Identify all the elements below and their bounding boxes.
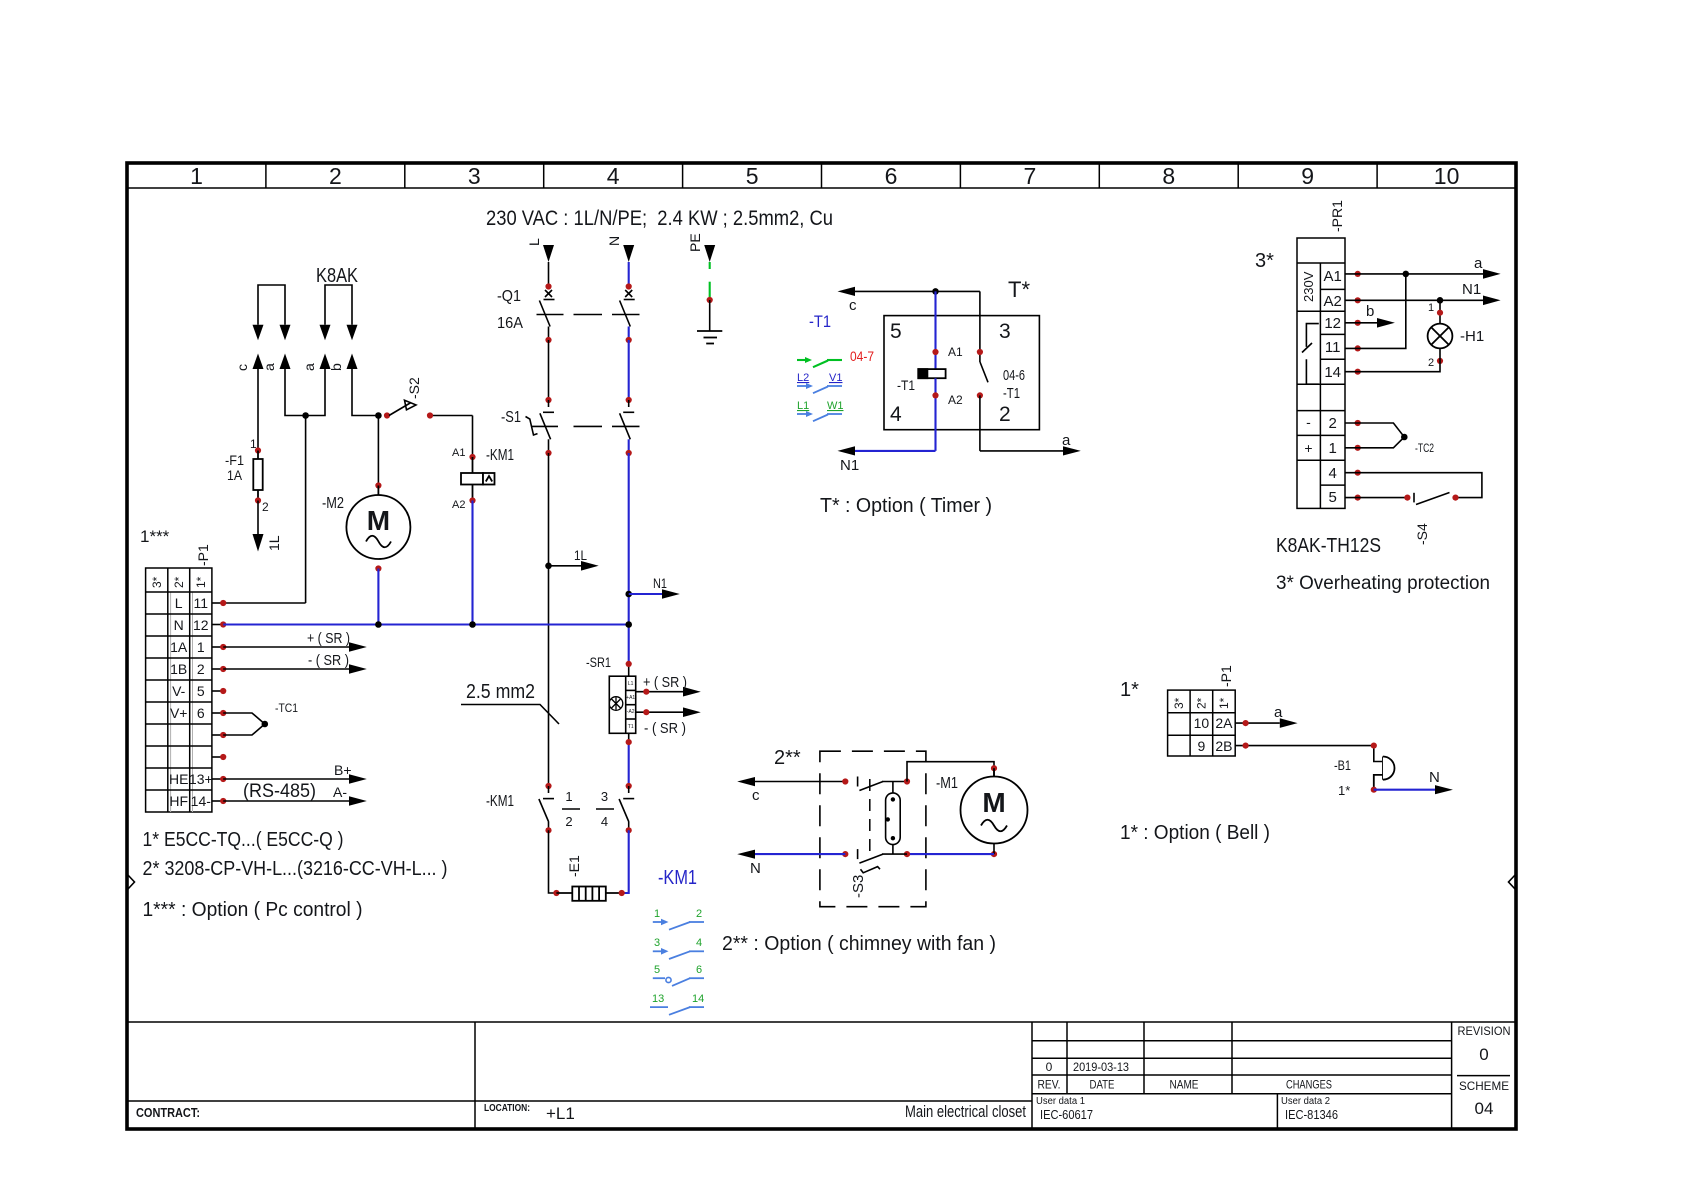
svg-text:2: 2 (1428, 357, 1434, 369)
title block texts (136, 1024, 1511, 1123)
timer box pin numbers (890, 320, 1011, 426)
svg-text:1B: 1B (170, 661, 187, 677)
svg-text:6: 6 (696, 964, 702, 976)
P1 header labels (150, 576, 208, 588)
fuse F1 labels (225, 437, 269, 514)
notes under P1 (143, 829, 448, 921)
svg-text:-SR1: -SR1 (586, 654, 611, 670)
switch S3 pole bottom (858, 849, 907, 873)
wire a pair join (223, 369, 325, 603)
svg-text:A1: A1 (948, 345, 963, 359)
wire to M1 top (907, 762, 994, 782)
svg-text:User data 2: User data 2 (1281, 1096, 1330, 1107)
svg-text:2: 2 (1329, 415, 1337, 432)
wire coil down (934, 378, 936, 451)
wire Q1L to S1L (548, 340, 550, 400)
svg-text:K8AK: K8AK (316, 265, 359, 287)
wire b to M2 (377, 416, 379, 486)
svg-text:-Q1: -Q1 (497, 288, 521, 305)
svg-text:A2: A2 (452, 499, 465, 511)
svg-text:A-: A- (333, 784, 347, 800)
svg-text:T1: T1 (628, 724, 634, 730)
svg-text:-T1: -T1 (1003, 385, 1020, 402)
svg-text:- ( SR ): - ( SR ) (644, 720, 686, 737)
svg-text:HE: HE (169, 771, 188, 787)
wire c arrow left (737, 777, 845, 804)
svg-text:a: a (1274, 704, 1283, 721)
svg-text:4: 4 (890, 403, 902, 426)
svg-text:b: b (328, 363, 344, 371)
wire N arrow bell (1374, 769, 1453, 794)
node S2 junction b (375, 412, 382, 419)
contact KM1 pole 1-2 (539, 786, 554, 830)
wire pole1 to E1 (549, 830, 557, 893)
wire A- arrow (223, 784, 367, 806)
wire B+ arrow (223, 762, 367, 784)
svg-text:-S2: -S2 (406, 377, 422, 399)
svg-text:3: 3 (601, 789, 608, 804)
svg-text:12: 12 (193, 617, 209, 633)
node Q1 L top (545, 283, 551, 289)
svg-text:1: 1 (1329, 440, 1337, 457)
svg-text:12: 12 (1324, 315, 1341, 332)
switch S3 pole top (858, 777, 907, 791)
svg-text:2*: 2* (172, 576, 186, 588)
discharge lamp (886, 782, 901, 855)
PR1 internal changeover contact (1302, 324, 1319, 385)
svg-text:14: 14 (1324, 364, 1341, 381)
svg-text:A1: A1 (452, 447, 465, 459)
svg-text:N: N (606, 236, 622, 246)
svg-text:A2: A2 (948, 393, 963, 407)
wire c arrow timer (838, 287, 980, 314)
svg-text:-A2: -A2 (627, 709, 635, 715)
svg-text:13: 13 (652, 993, 664, 1005)
timer T* box (884, 316, 1039, 430)
svg-text:1: 1 (190, 163, 203, 189)
svg-text:L1: L1 (797, 400, 809, 412)
node SR1 bottom (626, 739, 632, 745)
node bell top (1371, 743, 1377, 749)
svg-text:1: 1 (197, 639, 205, 655)
node S2 right (427, 412, 433, 418)
fuse F1 (253, 451, 262, 501)
svg-text:-S4: -S4 (1414, 523, 1430, 545)
column numbers 1-10 (190, 163, 1459, 189)
svg-text:-TC1: -TC1 (275, 701, 298, 715)
svg-text:IEC-81346: IEC-81346 (1285, 1107, 1338, 1122)
SR1 +A1 output arrow (636, 674, 701, 697)
svg-text:7: 7 (1024, 163, 1037, 189)
svg-text:c: c (234, 364, 250, 371)
svg-text:-PR1: -PR1 (1329, 200, 1345, 232)
svg-text:1*: 1* (1120, 679, 1139, 701)
svg-text:4: 4 (601, 814, 608, 829)
wire M1 bottom blue (993, 844, 995, 855)
svg-text:-F1: -F1 (225, 452, 244, 468)
node F1 pin2 (255, 497, 261, 503)
svg-text:2**: 2** (774, 747, 801, 769)
breaker Q1 pole N (620, 290, 635, 327)
KM1 aux contact 5-6 (653, 964, 704, 986)
T1 aux contact L2-V1 (797, 372, 842, 393)
bell B1 (1374, 757, 1395, 790)
svg-text:LOCATION:: LOCATION: (484, 1103, 530, 1114)
wire L from S1 down (548, 453, 550, 786)
thermocouple TC2 (1345, 423, 1404, 448)
S3 mechanical link (869, 779, 871, 852)
svg-text:04-7: 04-7 (850, 348, 874, 364)
node Q1 N top (626, 283, 632, 289)
svg-text:B+: B+ (334, 762, 352, 778)
KM1 contact terminal labels 1 2 3 4 (565, 789, 608, 829)
svg-text:14-: 14- (191, 793, 212, 809)
svg-text:-M1: -M1 (936, 775, 958, 792)
svg-text:(RS-485): (RS-485) (243, 781, 316, 802)
svg-text:-KM1: -KM1 (486, 447, 514, 464)
svg-text:1L: 1L (266, 535, 282, 551)
svg-text:-P1: -P1 (1218, 665, 1234, 687)
svg-text:3*: 3* (1172, 697, 1186, 709)
contact T1 blade (980, 362, 988, 382)
svg-text:PE: PE (687, 233, 703, 252)
svg-text:V1: V1 (829, 372, 842, 384)
svg-text:4: 4 (696, 937, 702, 949)
wire 2B to bell (1235, 746, 1383, 762)
S1 mechanical link dashes (574, 425, 640, 427)
chimney option dashed box (820, 751, 926, 907)
node KM1 pole1 bottom (545, 827, 551, 833)
node Q1 L bottom (545, 337, 551, 343)
svg-text:+ ( SR ): + ( SR ) (643, 674, 687, 691)
frame centerline markers (127, 874, 1516, 890)
wire 11 to A1 branch (1345, 274, 1406, 349)
wire lamp to 14 (1345, 348, 1440, 371)
svg-text:-S1: -S1 (501, 409, 521, 426)
node bell bottom (1371, 787, 1377, 793)
svg-text:230V: 230V (1301, 271, 1316, 302)
svg-text:1*: 1* (194, 576, 208, 588)
svg-text:a: a (261, 363, 277, 371)
node KM1 pole2 bottom (626, 827, 632, 833)
contact reference 04-6 (1003, 367, 1025, 402)
svg-text:+ ( SR ): + ( SR ) (307, 630, 350, 647)
svg-text:1* E5CC-TQ...( E5CC-Q ): 1* E5CC-TQ...( E5CC-Q ) (143, 829, 344, 851)
svg-text:W1: W1 (827, 400, 844, 412)
node M2 bottom (375, 565, 381, 571)
node H1 pin2 (1437, 358, 1443, 364)
svg-text:1*** : Option ( Pc control ): 1*** : Option ( Pc control ) (143, 899, 363, 921)
wire c down to F1 (257, 369, 259, 451)
node N bus KM1 (469, 621, 476, 628)
node F1 pin1 (255, 447, 261, 453)
contactor coil KM1 (461, 457, 495, 501)
svg-text:CHANGES: CHANGES (1286, 1078, 1332, 1092)
coil T1 (918, 369, 945, 378)
svg-text:10: 10 (1194, 715, 1210, 731)
svg-text:Main electrical closet: Main electrical closet (905, 1102, 1026, 1121)
K8AK connector bracket 1 (258, 285, 285, 325)
svg-text:V-: V- (172, 683, 186, 699)
svg-text:3: 3 (999, 320, 1011, 343)
KM1 aux contact 3-4 (653, 937, 704, 959)
wire PE to ground (709, 300, 711, 331)
svg-text:2019-03-13: 2019-03-13 (1073, 1060, 1129, 1074)
svg-text:L2: L2 (797, 372, 809, 384)
motor M1 (961, 768, 1028, 843)
svg-text:N1: N1 (653, 575, 667, 591)
wire 4 to S4 (1345, 473, 1482, 498)
svg-text:10: 10 (1434, 163, 1460, 189)
svg-text:230 VAC : 1L/N/PE; 2.4 KW ; 2: 230 VAC : 1L/N/PE; 2.4 KW ; 2.5mm2, Cu (486, 207, 833, 230)
wire b arrow (1345, 303, 1395, 328)
svg-text:2: 2 (329, 163, 342, 189)
svg-text:N: N (174, 617, 184, 633)
node T1 A2 (932, 392, 938, 398)
svg-text:M: M (367, 505, 390, 536)
node N1 branch (625, 591, 632, 598)
wire 1L off-page arrow down (253, 501, 283, 552)
wire N bus horizontal (223, 623, 629, 625)
node TC2 (1401, 434, 1408, 441)
svg-text:-T1: -T1 (809, 312, 831, 331)
P1 pin nodes (220, 600, 226, 804)
wire b down (352, 369, 378, 416)
svg-text:9: 9 (1301, 163, 1314, 189)
border frame (127, 163, 1516, 1129)
svg-text:b: b (1366, 303, 1374, 320)
node N bus M2 (375, 621, 382, 628)
wire N1 arrow (629, 575, 680, 599)
node A1 branch (1403, 271, 1410, 278)
svg-text:1L: 1L (574, 547, 587, 563)
supply arrow L (526, 238, 554, 287)
svg-text:-KM1: -KM1 (486, 793, 514, 810)
svg-text:-S3: -S3 (850, 875, 867, 898)
node SR1 -A2 (643, 709, 649, 715)
thermocouple TC1 (223, 713, 265, 735)
svg-text:User data 1: User data 1 (1036, 1096, 1085, 1107)
node S3 top left (842, 778, 848, 784)
ground (697, 331, 722, 344)
svg-text:2B: 2B (1215, 738, 1232, 754)
terminal block P1 bell (1168, 690, 1236, 756)
wire into coil (934, 291, 936, 369)
svg-text:1: 1 (565, 789, 572, 804)
K8AK connector bracket 2 (325, 285, 352, 325)
contact KM1 pole 3-4 (619, 786, 634, 830)
svg-text:- ( SR ): - ( SR ) (308, 652, 349, 669)
svg-text:T*: T* (1008, 277, 1030, 302)
lamp H1 (1428, 324, 1453, 349)
node E1 right (619, 890, 625, 896)
svg-text:5: 5 (890, 320, 902, 343)
svg-text:2: 2 (999, 403, 1011, 426)
svg-text:11: 11 (1325, 339, 1341, 356)
svg-text:5: 5 (746, 163, 759, 189)
svg-text:11: 11 (194, 595, 209, 611)
svg-text:A2: A2 (1324, 293, 1342, 310)
wire KM1 A2 to N bus (471, 501, 473, 625)
svg-text:-TC2: -TC2 (1415, 441, 1434, 455)
svg-text:-KM1: -KM1 (658, 867, 697, 889)
node KM1 A2 (469, 497, 475, 503)
switch S1 pole N (620, 400, 635, 439)
breaker Q1 label (497, 288, 523, 332)
wire A2 to N1 arrow (1345, 281, 1501, 305)
timer contact wire down (979, 291, 981, 362)
svg-text:-: - (1306, 414, 1311, 430)
svg-text:0: 0 (1479, 1045, 1488, 1064)
node SR1 +A1 (643, 689, 649, 695)
svg-text:+: + (1304, 440, 1312, 456)
svg-text:5: 5 (197, 683, 205, 699)
node M1 bottom (991, 851, 997, 857)
node 1L branch (545, 563, 552, 570)
svg-text:1A: 1A (170, 639, 188, 655)
svg-text:T* : Option ( Timer ): T* : Option ( Timer ) (820, 495, 992, 517)
svg-text:1: 1 (654, 908, 660, 920)
protection relay PR1 terminal table (1297, 238, 1345, 508)
svg-text:2: 2 (565, 814, 572, 829)
switch S2 (389, 400, 473, 457)
wire a arrow timer (980, 395, 1081, 455)
svg-text:4: 4 (1329, 465, 1337, 482)
wire M2 to N bus (377, 569, 379, 625)
svg-text:2** : Option ( chimney with fa: 2** : Option ( chimney with fan ) (722, 933, 996, 955)
node KM1 A1 (469, 454, 475, 460)
wire A1 to a arrow (1345, 255, 1501, 279)
P1 pin stubs (212, 603, 223, 801)
title block (127, 1022, 1516, 1129)
node S4 right (1452, 495, 1458, 501)
wire A2 branch to lamp (1439, 300, 1441, 323)
svg-text:c: c (849, 297, 857, 314)
svg-text:2: 2 (197, 661, 205, 677)
wire N from S1 down (628, 453, 630, 664)
SR1 pin labels (626, 681, 635, 730)
node S1 L top (545, 397, 551, 403)
svg-text:N1: N1 (840, 457, 859, 474)
svg-text:2: 2 (696, 908, 702, 920)
svg-text:1A: 1A (227, 467, 243, 483)
svg-text:REVISION: REVISION (1458, 1024, 1511, 1038)
node M2 top (375, 482, 381, 488)
node a join (302, 412, 309, 419)
node Q1 N bottom (626, 337, 632, 343)
svg-text:3* Overheating protection: 3* Overheating protection (1276, 573, 1490, 594)
node E1 left (553, 890, 559, 896)
wire labels c a a b (234, 363, 344, 371)
switch S4 (1345, 493, 1450, 505)
node 2B (1243, 743, 1249, 749)
svg-text:IEC-60617: IEC-60617 (1040, 1107, 1093, 1122)
solid state relay SR1 (609, 676, 636, 733)
node A2 branch (1437, 297, 1444, 304)
KM1 aux contact 13-14 (650, 993, 704, 1015)
T1 aux contact green (797, 357, 842, 367)
svg-text:04-6: 04-6 (1003, 367, 1025, 384)
node SR1 top (626, 661, 632, 667)
node TC1 (262, 721, 269, 728)
svg-text:1*: 1* (1338, 783, 1350, 798)
svg-text:M: M (982, 787, 1005, 818)
supply arrow N (606, 236, 634, 287)
svg-text:0: 0 (1046, 1060, 1053, 1074)
node H1 pin1 (1437, 310, 1443, 316)
node KM1 pole1 top (545, 783, 551, 789)
P1 bell cell labels (1194, 715, 1234, 754)
svg-text:9: 9 (1198, 738, 1206, 754)
2.5 mm2 note (461, 681, 559, 724)
wire 2A to a arrow (1235, 704, 1297, 728)
svg-text:V+: V+ (170, 705, 188, 721)
svg-text:c: c (752, 787, 760, 804)
svg-text:2* 3208-CP-VH-L...(3216-CC-VH-: 2* 3208-CP-VH-L...(3216-CC-VH-L... ) (143, 858, 448, 880)
node N bus SR1 (625, 621, 632, 628)
svg-text:3*: 3* (150, 576, 164, 588)
node S2 left (384, 412, 390, 418)
svg-text:1: 1 (1428, 302, 1434, 314)
node S1 N top (626, 397, 632, 403)
node S3 bottom left (842, 851, 848, 857)
svg-text:N: N (1429, 769, 1440, 786)
svg-text:2*: 2* (1195, 697, 1209, 709)
svg-text:L: L (526, 238, 542, 246)
svg-text:A1: A1 (1324, 268, 1342, 285)
node KM1 pole2 top (626, 783, 632, 789)
svg-text:2A: 2A (1215, 715, 1233, 731)
node PE (707, 297, 713, 303)
svg-text:-B1: -B1 (1334, 757, 1351, 773)
svg-text:N1: N1 (1462, 281, 1481, 298)
svg-text:3: 3 (654, 937, 660, 949)
svg-text:a: a (301, 363, 317, 371)
svg-text:-M2: -M2 (322, 495, 344, 512)
PR1 cell labels (1304, 268, 1341, 506)
node S3 bottom right (904, 851, 910, 857)
svg-text:04: 04 (1475, 1099, 1494, 1118)
svg-text:6: 6 (197, 705, 205, 721)
node S4 left (1404, 495, 1410, 501)
node T1 contact bottom (977, 392, 983, 398)
svg-text:K8AK-TH12S: K8AK-TH12S (1276, 535, 1381, 557)
svg-text:16A: 16A (497, 315, 523, 332)
node 2A (1243, 720, 1249, 726)
svg-text:3*: 3* (1255, 250, 1274, 272)
svg-text:8: 8 (1162, 163, 1175, 189)
PR1 pin nodes (1355, 271, 1361, 501)
svg-text:14: 14 (692, 993, 704, 1005)
svg-text:2: 2 (262, 500, 269, 514)
svg-text:+A1: +A1 (626, 695, 635, 701)
svg-text:6: 6 (885, 163, 898, 189)
svg-text:13+: 13+ (189, 771, 213, 787)
node T1 A1 (932, 349, 938, 355)
svg-text:5: 5 (654, 964, 660, 976)
svg-text:4: 4 (607, 163, 620, 189)
T1 aux contact L1-W1 (797, 400, 844, 421)
heater E1 (556, 887, 621, 901)
svg-text:2.5 mm2: 2.5 mm2 (466, 681, 535, 703)
KM1 aux contact 1-2 (653, 908, 704, 930)
svg-text:-T1: -T1 (897, 377, 915, 393)
svg-text:-E1: -E1 (566, 855, 582, 877)
wire Q1N to S1N (628, 340, 630, 400)
wire SR1 T1 down (628, 733, 630, 742)
wire pole2 to E1 (622, 830, 629, 893)
svg-text:L1: L1 (628, 681, 634, 687)
